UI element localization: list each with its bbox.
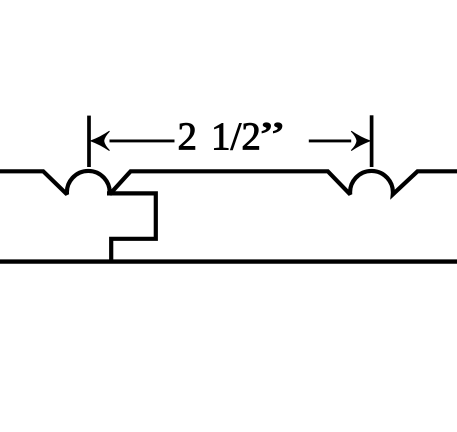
right dimension line [309, 139, 351, 142]
left arrowhead (points left at tick) [91, 131, 110, 150]
tongue-and-groove joint step [107, 193, 156, 261]
board bottom surface line [0, 259, 457, 263]
left dimension line [110, 139, 175, 142]
svg-text:1/2: 1/2 [211, 115, 261, 158]
left extension tick [87, 116, 91, 167]
svg-text:”: ” [260, 114, 285, 157]
right extension tick [370, 115, 374, 167]
right arrowhead (points right at tick) [351, 131, 370, 150]
board top surface profile with two beads [0, 171, 457, 194]
svg-text:2: 2 [178, 115, 198, 158]
